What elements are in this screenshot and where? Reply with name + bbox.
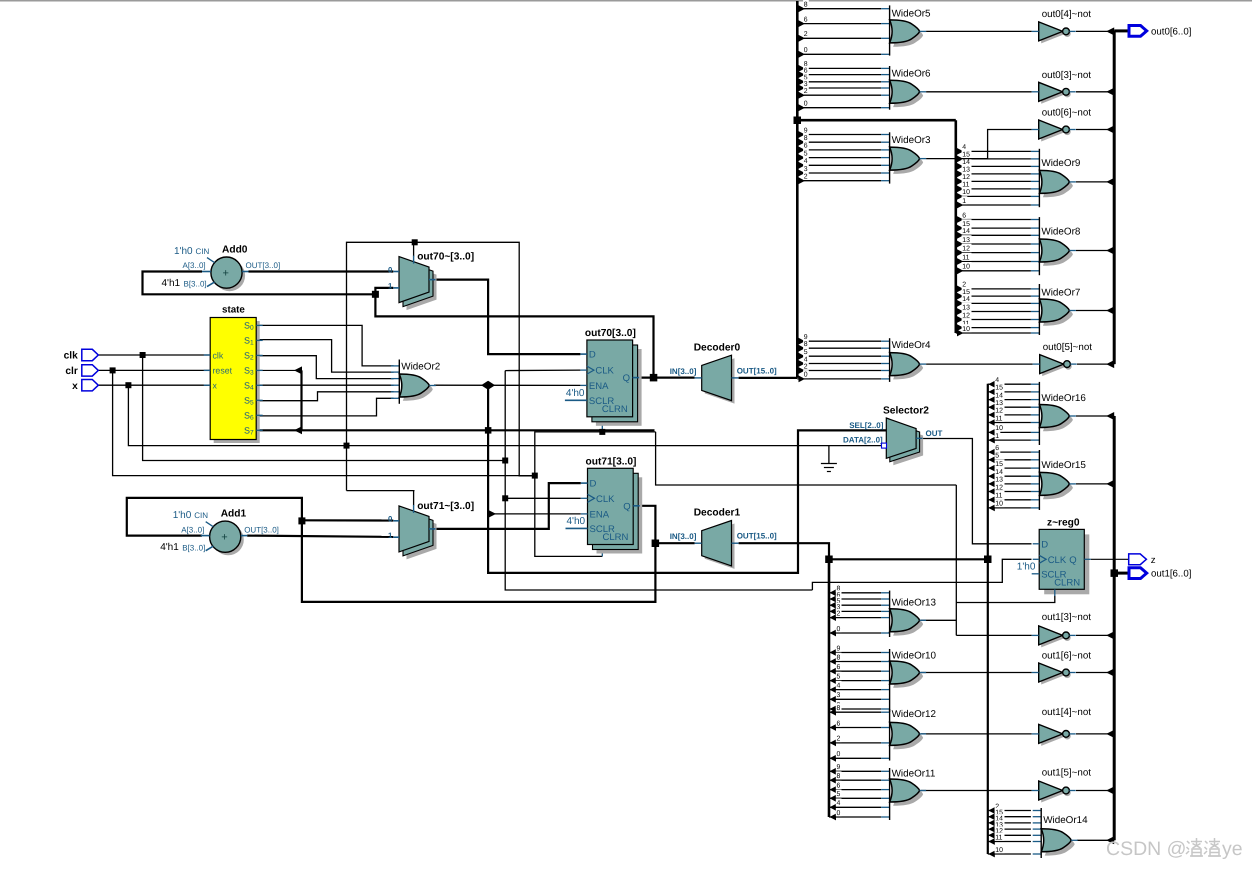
- svg-text:CLRN: CLRN: [603, 532, 629, 543]
- svg-text:12: 12: [995, 408, 1003, 415]
- wire bit 10: [957, 267, 964, 274]
- svg-text:1: 1: [388, 282, 393, 291]
- svg-text:out1[4]~not: out1[4]~not: [1042, 707, 1092, 718]
- wire bit 13: [957, 171, 964, 178]
- wire bit 14: [957, 163, 964, 170]
- svg-text:2: 2: [804, 88, 808, 95]
- selector Selector2: [843, 406, 943, 466]
- input pin x: [72, 380, 98, 392]
- svg-text:0: 0: [837, 751, 841, 758]
- wire S7 to bundle: [256, 429, 301, 431]
- svg-text:out70[3..0]: out70[3..0]: [585, 328, 636, 339]
- wire bit 4: [830, 804, 837, 811]
- wire x trunk to selector DATA: [128, 385, 883, 445]
- svg-text:IN[3..0]: IN[3..0]: [670, 367, 697, 376]
- gate WideOr15: [1031, 450, 1086, 510]
- svg-text:6: 6: [804, 143, 808, 150]
- svg-text:CLRN: CLRN: [1054, 577, 1080, 588]
- wire bit 15: [988, 389, 995, 396]
- junction out70 Q: [650, 374, 658, 382]
- arrow S7 tap: [294, 426, 302, 434]
- svg-text:0: 0: [388, 515, 393, 524]
- wire out71 CLRN stub: [601, 550, 603, 557]
- svg-text:12: 12: [962, 245, 970, 252]
- wire bit 3: [830, 608, 837, 615]
- wire bit 5: [988, 456, 995, 463]
- wire clk to z~reg0 CLK: [812, 559, 1031, 590]
- svg-text:13: 13: [962, 237, 970, 244]
- wire bit 14: [957, 232, 964, 239]
- wire bit 4: [799, 162, 806, 169]
- wire bit 13: [957, 308, 964, 315]
- wire bit 6: [830, 668, 837, 675]
- svg-text:2: 2: [837, 610, 841, 617]
- svg-text:WideOr9: WideOr9: [1041, 158, 1080, 169]
- junction clr split: [532, 473, 538, 479]
- svg-text:15: 15: [995, 461, 1003, 468]
- diamond junction WideOr2 out: [481, 381, 495, 390]
- junction decoder1 bus: [825, 556, 833, 564]
- svg-text:0: 0: [837, 810, 841, 817]
- svg-text:4: 4: [995, 377, 999, 384]
- wire WideOr11 out to inverter: [921, 790, 1032, 792]
- wire bit 8: [799, 65, 806, 72]
- wire bit 13: [988, 404, 995, 411]
- svg-text:CLRN: CLRN: [602, 404, 628, 415]
- wire mux0 select stub: [413, 242, 415, 256]
- svg-text:+: +: [221, 532, 227, 544]
- wire bit 5: [799, 78, 806, 85]
- decoder Decoder0: [670, 342, 777, 403]
- svg-text:OUT: OUT: [926, 429, 943, 438]
- bus mux1 out to out71 D: [436, 483, 581, 529]
- svg-text:0: 0: [837, 626, 841, 633]
- svg-text:D: D: [1041, 539, 1048, 550]
- wire bit 12: [957, 249, 964, 256]
- wire bit 8: [830, 589, 837, 596]
- gate WideOr5: [881, 5, 931, 55]
- wire S2 to WideOr2: [256, 356, 393, 379]
- wire clr trunk: [113, 370, 535, 475]
- svg-text:OUT[3..0]: OUT[3..0]: [244, 525, 279, 534]
- wire bit 6: [799, 20, 806, 27]
- wire WideOr6 out to inverter: [926, 91, 1032, 93]
- wire bit 4: [799, 360, 806, 367]
- wire bit 15: [957, 225, 964, 232]
- wire WideOr12 out to inverter: [921, 733, 1032, 735]
- wire Add1 A feedback: [127, 498, 302, 536]
- wire bit 14: [988, 820, 995, 827]
- bus top-right branch: [797, 119, 956, 122]
- svg-text:CIN: CIN: [194, 511, 208, 520]
- svg-text:clr: clr: [65, 366, 77, 377]
- svg-text:8: 8: [804, 2, 808, 9]
- wire S3 to bundle: [256, 369, 301, 371]
- wire bit 6: [830, 596, 837, 603]
- gate WideOr7: [1031, 284, 1080, 335]
- svg-text:Decoder1: Decoder1: [694, 508, 741, 519]
- svg-text:11: 11: [995, 834, 1002, 841]
- wire bit 6: [830, 724, 837, 731]
- flip-flop out70[3..0]: [565, 328, 642, 426]
- svg-text:1: 1: [388, 531, 393, 540]
- svg-text:out71~[3..0]: out71~[3..0]: [417, 501, 474, 512]
- bus Decoder0 OUT to distribution bus: [739, 377, 798, 379]
- wire bit 13: [988, 826, 995, 833]
- svg-text:Q: Q: [623, 501, 630, 512]
- svg-text:9: 9: [837, 764, 841, 771]
- svg-text:13: 13: [995, 477, 1003, 484]
- inverter out1[6]~not: [1032, 651, 1092, 685]
- wire z CLRN rail: [955, 485, 957, 635]
- junction x: [125, 382, 131, 388]
- svg-text:out0[4]~not: out0[4]~not: [1042, 9, 1092, 20]
- svg-text:WideOr6: WideOr6: [892, 69, 931, 80]
- svg-text:OUT[15..0]: OUT[15..0]: [737, 532, 777, 541]
- gate WideOr8: [1031, 217, 1081, 275]
- svg-text:Add1: Add1: [221, 509, 247, 520]
- svg-text:WideOr15: WideOr15: [1041, 460, 1086, 471]
- wire WideOr8 out: [1076, 250, 1114, 252]
- bus out71 Q feedback: [302, 506, 656, 602]
- wire bit 10: [988, 851, 995, 858]
- wire out1[6]~not out: [1076, 672, 1114, 674]
- svg-text:reset: reset: [213, 366, 233, 376]
- wire bit 11: [988, 496, 995, 503]
- svg-text:6: 6: [837, 720, 841, 727]
- junction clk main: [502, 458, 508, 464]
- wire out0[3]~not out: [1076, 91, 1114, 93]
- wire WideOr5 out to inverter: [926, 30, 1032, 32]
- bus Decoder1 OUT to bottom bus: [739, 543, 829, 559]
- svg-text:OUT[15..0]: OUT[15..0]: [737, 366, 777, 375]
- wire out1[3]~not out: [1076, 634, 1114, 636]
- svg-text:out0[6]~not: out0[6]~not: [1042, 108, 1092, 119]
- svg-text:1'h0: 1'h0: [173, 510, 192, 521]
- svg-text:out0[6..0]: out0[6..0]: [1151, 27, 1191, 38]
- svg-text:state: state: [222, 305, 245, 316]
- svg-text:3: 3: [804, 166, 808, 173]
- wire out0[6]~not out: [1076, 129, 1114, 131]
- svg-text:z: z: [1151, 555, 1156, 566]
- wire bit 10: [988, 429, 995, 436]
- svg-text:SEL[2..0]: SEL[2..0]: [849, 421, 884, 430]
- svg-text:OUT[3..0]: OUT[3..0]: [246, 261, 281, 270]
- wire out1 result bus: [1113, 416, 1116, 840]
- svg-text:ENA: ENA: [589, 381, 609, 392]
- svg-text:10: 10: [995, 847, 1003, 854]
- wire bit 15: [988, 465, 995, 472]
- svg-text:1'h0: 1'h0: [174, 246, 193, 257]
- wire WideOr3 out to inverter: [926, 130, 1032, 159]
- wire out1[3] inverter feed: [956, 634, 1031, 636]
- svg-text:WideOr13: WideOr13: [892, 598, 937, 609]
- mux out70~[3..0]: [388, 252, 474, 311]
- svg-text:4: 4: [837, 682, 841, 689]
- flip-flop out71[3..0]: [566, 456, 643, 553]
- output pin out1[6..0]: [1129, 568, 1191, 580]
- wire bit 9: [799, 131, 806, 138]
- junction Add0 feedback: [372, 291, 379, 298]
- wire out70 CLRN stub: [601, 422, 603, 432]
- wire out0 pin connect: [1114, 29, 1129, 32]
- wire bit 10: [957, 193, 964, 200]
- wire bit 6: [957, 216, 964, 223]
- wire clk vertical distribution: [505, 371, 812, 590]
- svg-text:4'h1: 4'h1: [160, 542, 179, 553]
- output pin z: [1129, 554, 1156, 566]
- junction bundle-enable cross: [485, 427, 492, 434]
- bus out70 Q feedback: [375, 294, 653, 377]
- wire bit 11: [988, 419, 995, 426]
- svg-text:11: 11: [995, 415, 1002, 422]
- svg-text:6: 6: [837, 664, 841, 671]
- wire bit 4: [830, 686, 837, 693]
- wire WideOr16 out: [1076, 415, 1114, 417]
- svg-text:WideOr14: WideOr14: [1043, 815, 1088, 826]
- svg-text:D: D: [590, 479, 597, 490]
- svg-text:WideOr5: WideOr5: [892, 9, 931, 20]
- svg-text:4'h0: 4'h0: [566, 388, 585, 399]
- junction out71 Q decoder: [652, 540, 660, 548]
- wire z~reg0 CLRN drop: [956, 596, 1055, 603]
- wire bit 8: [799, 345, 806, 352]
- wire out1[4]~not out: [1076, 733, 1114, 735]
- svg-text:2: 2: [837, 736, 841, 743]
- wire bit 14: [988, 396, 995, 403]
- wire enable to out70 ENA: [434, 384, 580, 386]
- wire bit 0: [799, 376, 806, 383]
- wire mux select riser: [347, 242, 535, 490]
- wire bit 2: [830, 614, 837, 621]
- wire bit 13: [957, 241, 964, 248]
- wire clk to out71 CLK: [505, 497, 581, 499]
- svg-text:4'h0: 4'h0: [567, 516, 586, 527]
- gate WideOr2: [391, 360, 440, 404]
- gate WideOr4: [881, 338, 931, 382]
- top window border: [0, 0, 1252, 2]
- wire bit 2: [957, 286, 964, 293]
- svg-text:14: 14: [962, 296, 970, 303]
- wire S6 to WideOr2: [256, 398, 393, 416]
- wire bit 12: [988, 488, 995, 495]
- svg-text:A[3..0]: A[3..0]: [181, 525, 204, 534]
- svg-text:8: 8: [804, 341, 808, 348]
- wire bit 3: [799, 170, 806, 177]
- mux out71~[3..0]: [388, 501, 474, 559]
- wire mux1 in0 from feedback: [302, 519, 393, 521]
- wire bit 1: [957, 202, 964, 209]
- svg-text:14: 14: [995, 469, 1003, 476]
- wire mux1 select branch: [347, 491, 415, 506]
- svg-text:WideOr3: WideOr3: [892, 135, 931, 146]
- inverter out1[3]~not: [1032, 612, 1092, 647]
- gate WideOr11: [881, 768, 936, 820]
- wire bit 2: [830, 740, 837, 747]
- svg-text:out71[3..0]: out71[3..0]: [586, 456, 637, 467]
- svg-text:WideOr2: WideOr2: [401, 362, 440, 373]
- junction bus top right: [794, 117, 802, 125]
- arrow out71 ENA tap: [488, 510, 496, 518]
- wire bit 9: [799, 338, 806, 345]
- svg-text:5: 5: [804, 150, 808, 157]
- bus mux0 out to out70 D: [436, 280, 581, 355]
- wire bit 6: [799, 71, 806, 78]
- wire bit 12: [988, 412, 995, 419]
- svg-text:8: 8: [804, 135, 808, 142]
- svg-text:3: 3: [837, 692, 841, 699]
- inverter out0[3]~not: [1032, 70, 1092, 104]
- gate WideOr12: [881, 709, 936, 761]
- inverter out0[4]~not: [1032, 9, 1092, 43]
- wire WideOr4 out to inverter: [926, 363, 1033, 365]
- svg-text:1'h0: 1'h0: [1017, 561, 1036, 572]
- svg-text:ENA: ENA: [590, 509, 610, 520]
- wire bit 15: [957, 293, 964, 300]
- wire bit 10: [957, 330, 964, 337]
- svg-text:WideOr8: WideOr8: [1041, 227, 1080, 238]
- svg-text:4'h1: 4'h1: [162, 278, 181, 289]
- svg-text:9: 9: [804, 127, 808, 134]
- svg-text:13: 13: [962, 304, 970, 311]
- wire bit 12: [988, 832, 995, 839]
- svg-text:out1[6..0]: out1[6..0]: [1151, 569, 1191, 580]
- svg-text:CSDN @: CSDN @: [1106, 838, 1186, 860]
- wire out1[5]~not out: [1076, 790, 1114, 792]
- svg-text:15: 15: [995, 385, 1003, 392]
- wire bit 5: [830, 602, 837, 609]
- junction mux1 in0: [298, 517, 305, 524]
- svg-text:D: D: [589, 350, 596, 361]
- wire bit 14: [988, 473, 995, 480]
- wire clr lower branch to out71 CLRN: [535, 476, 603, 557]
- junction out1 pin: [1111, 569, 1119, 577]
- wire bit 14: [957, 300, 964, 307]
- wire bit 5: [830, 795, 837, 802]
- wire bit 0: [799, 51, 806, 58]
- wire bit 8: [830, 709, 837, 716]
- bus wideor16 column vertical: [987, 384, 989, 854]
- svg-text:WideOr10: WideOr10: [892, 650, 937, 661]
- svg-text:0: 0: [804, 101, 808, 108]
- wire bit 8: [830, 658, 837, 665]
- wire bit 2: [799, 35, 806, 42]
- wire WideOr15 out: [1076, 483, 1114, 485]
- svg-text:out0[3]~not: out0[3]~not: [1042, 70, 1092, 81]
- svg-text:12: 12: [962, 312, 970, 319]
- svg-text:clk: clk: [213, 350, 224, 360]
- wire bit 4: [957, 148, 964, 155]
- svg-text:clk: clk: [64, 351, 78, 362]
- bus bottom-left vertical: [828, 559, 831, 817]
- wire clk trunk: [143, 355, 506, 461]
- gate WideOr6: [881, 66, 931, 110]
- wire z~reg0 Q to z pin: [1091, 558, 1129, 560]
- junction mux0 select: [412, 239, 418, 245]
- wire out0 result bus: [1113, 31, 1116, 364]
- wire bit 5: [799, 154, 806, 161]
- junction clk out71: [502, 495, 508, 501]
- wire Add1 OUT to mux1 in1: [247, 536, 393, 537]
- wire bit 15: [957, 156, 964, 163]
- svg-text:4: 4: [804, 158, 808, 165]
- svg-text:11: 11: [995, 493, 1002, 500]
- svg-text:A[3..0]: A[3..0]: [183, 261, 206, 270]
- svg-text:0: 0: [804, 47, 808, 54]
- wire bit 5: [799, 353, 806, 360]
- wire WideOr10 out to inverter: [921, 672, 1032, 674]
- svg-text:ye: ye: [1222, 838, 1243, 860]
- bus out71 Q to Decoder1: [655, 542, 694, 544]
- svg-text:x: x: [72, 381, 78, 392]
- wire clr pin to state reset: [97, 369, 210, 371]
- ground symbol: [821, 464, 837, 472]
- svg-text:10: 10: [962, 264, 970, 271]
- wire S4 to WideOr2: [256, 384, 393, 386]
- svg-text:B[3..0]: B[3..0]: [182, 544, 205, 553]
- wire bit 0: [799, 104, 806, 111]
- svg-text:5: 5: [995, 453, 999, 460]
- inverter out1[4]~not: [1032, 707, 1092, 746]
- wire bit 12: [957, 316, 964, 323]
- wire x pin to state x: [97, 384, 210, 386]
- wire bit 8: [830, 777, 837, 784]
- inverter out0[5]~not: [1033, 342, 1093, 376]
- svg-text:WideOr16: WideOr16: [1041, 393, 1086, 404]
- svg-text:CLK: CLK: [595, 366, 614, 377]
- wire clr to right CLRN rail: [656, 432, 957, 485]
- gate WideOr10: [881, 649, 936, 712]
- wire clr upper branch to out70 CLRN: [535, 432, 656, 476]
- svg-text:DATA[2..0]: DATA[2..0]: [843, 436, 883, 445]
- wire bit 5: [830, 677, 837, 684]
- wire bit 3: [799, 85, 806, 92]
- svg-text:Q: Q: [623, 373, 630, 384]
- svg-text:Q: Q: [1069, 555, 1076, 566]
- decoder Decoder1: [670, 508, 777, 569]
- wire bit 13: [988, 481, 995, 488]
- gate WideOr14: [1033, 808, 1088, 858]
- svg-text:14: 14: [995, 392, 1003, 399]
- svg-text:CLK: CLK: [1048, 555, 1067, 566]
- svg-text:out1[6]~not: out1[6]~not: [1042, 651, 1092, 662]
- svg-text:CLK: CLK: [596, 494, 615, 505]
- svg-text:9: 9: [837, 645, 841, 652]
- svg-text:1: 1: [995, 433, 999, 440]
- svg-text:out0[5]~not: out0[5]~not: [1043, 342, 1093, 353]
- svg-text:z~reg0: z~reg0: [1047, 517, 1080, 528]
- bus S3/S7 bundle: [302, 370, 655, 430]
- wire bit 8: [799, 5, 806, 12]
- wire bit 1: [988, 437, 995, 444]
- wire bit 11: [957, 258, 964, 265]
- svg-text:10: 10: [995, 501, 1003, 508]
- wire WideOr9 out: [1076, 181, 1114, 183]
- svg-text:WideOr12: WideOr12: [892, 709, 936, 720]
- svg-text:4: 4: [837, 800, 841, 807]
- bus out70 Q to Decoder0: [639, 377, 695, 379]
- svg-text:B[3..0]: B[3..0]: [184, 279, 207, 288]
- svg-text:IN[3..0]: IN[3..0]: [670, 532, 697, 541]
- bus wideor9 column vertical: [954, 120, 957, 333]
- wire bit 3: [830, 696, 837, 703]
- svg-text:11: 11: [962, 254, 969, 261]
- wire mux0 in1 from feedback: [375, 288, 393, 294]
- wire bit 6: [799, 147, 806, 154]
- inverter out1[5]~not: [1032, 768, 1092, 803]
- input pin clk: [64, 349, 99, 361]
- wire enable tap to out71 ENA: [488, 513, 581, 515]
